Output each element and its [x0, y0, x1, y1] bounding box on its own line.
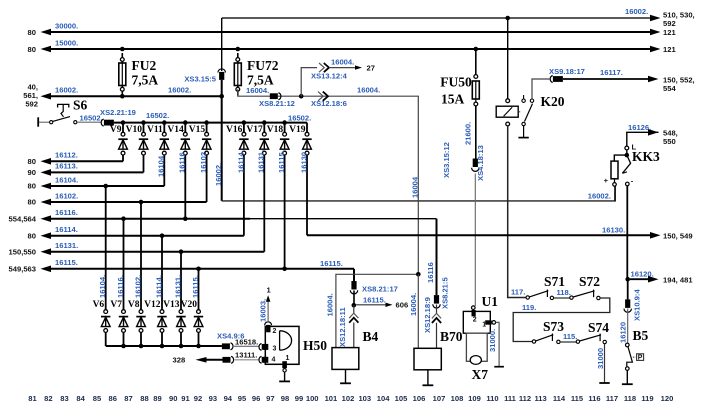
diode V9	[110, 123, 128, 162]
wire 16114	[28, 225, 244, 240]
wire 16004 branch to 27	[301, 58, 375, 97]
fuse FU2 7,5A	[119, 53, 159, 96]
svg-text:15000.: 15000.	[55, 38, 78, 47]
svg-text:FU72: FU72	[247, 58, 279, 73]
svg-text:102: 102	[342, 394, 355, 403]
svg-text:99: 99	[295, 394, 303, 403]
label 16102 (V15 wire)	[199, 152, 208, 173]
svg-text:KK3: KK3	[632, 149, 660, 164]
svg-text:FU2: FU2	[132, 58, 157, 73]
wire 16004 (to B4)	[325, 272, 420, 348]
svg-text:80: 80	[28, 231, 36, 240]
svg-text:118: 118	[624, 394, 636, 403]
svg-text:16116.: 16116.	[116, 275, 125, 298]
node 40,561,592	[23, 83, 38, 109]
diode V19	[289, 123, 312, 236]
svg-text:16004.: 16004.	[325, 293, 334, 316]
wire 16115 vertical / connector XS8.21:17	[338, 269, 398, 348]
svg-text:16004.: 16004.	[357, 86, 380, 95]
switch S73	[532, 319, 564, 344]
connector XS8.21:12	[259, 93, 295, 108]
svg-text:118.: 118.	[557, 288, 571, 297]
wire 16116 vertical / connector XS8.21:5	[423, 219, 450, 349]
svg-text:16502.: 16502.	[288, 114, 311, 123]
svg-text:117.: 117.	[511, 288, 525, 297]
svg-text:XS12.18:9: XS12.18:9	[423, 297, 432, 333]
svg-text:XS2.21:19: XS2.21:19	[100, 108, 136, 117]
svg-text:16112.: 16112.	[55, 151, 78, 160]
svg-text:30000.: 30000.	[55, 21, 78, 30]
svg-text:16115.: 16115.	[191, 275, 200, 298]
svg-text:16004.: 16004.	[246, 86, 269, 95]
node 150,552,554	[663, 76, 695, 94]
svg-text:88: 88	[140, 394, 148, 403]
svg-text:93: 93	[209, 394, 217, 403]
label 16130 (V19 wire)	[299, 152, 308, 173]
svg-text:XS12.18:11: XS12.18:11	[338, 307, 347, 347]
svg-text:150,550: 150,550	[9, 247, 36, 256]
svg-text:592: 592	[25, 100, 38, 109]
svg-text:U1: U1	[482, 294, 499, 309]
svg-text:V17: V17	[246, 125, 263, 135]
svg-text:119: 119	[641, 394, 653, 403]
wire 118	[554, 288, 571, 298]
wire 16120 vertical (KK3 to B5)	[619, 186, 642, 343]
svg-text:B4: B4	[363, 329, 379, 344]
diode V11	[147, 123, 169, 186]
svg-text:2: 2	[473, 317, 477, 324]
wire 16502 bus	[114, 111, 311, 125]
label 16114 (V16 wire)	[236, 150, 245, 173]
svg-text:85: 85	[93, 394, 102, 403]
svg-text:16130: 16130	[299, 152, 308, 173]
connector X7	[466, 333, 488, 382]
wire 16113	[28, 162, 144, 177]
svg-text:95: 95	[238, 394, 247, 403]
svg-text:V15: V15	[189, 125, 206, 135]
wire 16004 (to B70)	[417, 274, 419, 348]
label 16131 (V13 wire)	[173, 275, 182, 298]
diode V17	[246, 123, 269, 252]
connector XS2.21:19	[100, 108, 136, 126]
svg-text:V12: V12	[144, 300, 161, 310]
device B4	[332, 329, 379, 383]
svg-text:16104.: 16104.	[98, 275, 107, 298]
svg-text:XS8.21:5: XS8.21:5	[440, 277, 449, 309]
svg-text:16002.: 16002.	[168, 86, 191, 95]
svg-text:100: 100	[306, 394, 319, 403]
wire 16002 (top line to 510,530,592)	[222, 7, 661, 21]
svg-text:103: 103	[358, 394, 371, 403]
node 121 (30000)	[663, 28, 676, 37]
svg-text:80: 80	[28, 45, 36, 54]
wire 16002 (to KK3 heater)	[222, 186, 616, 201]
svg-text:110: 110	[486, 394, 498, 403]
svg-text:V10: V10	[126, 125, 143, 135]
svg-text:16102.: 16102.	[133, 275, 142, 298]
svg-text:104: 104	[377, 394, 390, 403]
diode V7	[110, 219, 128, 346]
svg-text:4: 4	[272, 357, 276, 364]
svg-text:XS9.18:17: XS9.18:17	[549, 67, 585, 76]
svg-text:120: 120	[661, 394, 674, 403]
svg-text:16518.: 16518.	[235, 337, 258, 346]
svg-text:16102.: 16102.	[55, 191, 78, 200]
wire 16126	[628, 123, 659, 136]
relay K20 coil	[496, 18, 565, 126]
switch S72	[570, 274, 600, 300]
label 16104 (V11 wire)	[157, 155, 166, 177]
svg-text:16116.: 16116.	[55, 208, 78, 217]
svg-text:16114.: 16114.	[55, 225, 78, 234]
svg-text:XS3.15:12: XS3.15:12	[442, 142, 451, 178]
svg-text:V11: V11	[147, 125, 163, 135]
wire 13111 / 328	[173, 351, 268, 365]
svg-text:115: 115	[571, 394, 584, 403]
svg-text:89: 89	[153, 394, 161, 403]
diode V18	[267, 123, 290, 269]
svg-text:549,563: 549,563	[9, 265, 36, 274]
svg-text:B5: B5	[633, 328, 649, 343]
diode V13	[163, 252, 186, 346]
fuse FU50 15A	[440, 49, 479, 107]
svg-text:16116: 16116	[178, 152, 187, 173]
wire 16004 (from FU72)	[238, 86, 420, 317]
svg-text:16114.: 16114.	[154, 275, 163, 298]
svg-text:94: 94	[224, 394, 233, 403]
svg-text:S74: S74	[588, 320, 609, 335]
svg-text:105: 105	[395, 394, 408, 403]
svg-text:90: 90	[169, 394, 177, 403]
svg-text:606: 606	[396, 301, 409, 310]
svg-text:S73: S73	[543, 319, 564, 334]
svg-text:X7: X7	[472, 367, 489, 382]
svg-text:109: 109	[468, 394, 481, 403]
svg-text:111: 111	[504, 394, 517, 403]
switch S74	[576, 320, 609, 344]
svg-text:XS3.15:5: XS3.15:5	[184, 75, 216, 84]
label 16115 (V20 wire)	[191, 275, 200, 298]
svg-text:2: 2	[273, 328, 277, 335]
svg-text:554: 554	[663, 84, 676, 93]
diode V10	[126, 123, 149, 173]
svg-text:194, 481: 194, 481	[663, 276, 693, 285]
wire 16115 to 606	[356, 295, 408, 309]
diode V14	[167, 123, 190, 219]
svg-text:+: +	[604, 176, 609, 185]
label 16104 (V6 wire)	[98, 275, 107, 298]
svg-text:16114.: 16114.	[236, 150, 245, 173]
wire 115	[560, 332, 577, 342]
switch B5 (pressure)	[622, 328, 649, 384]
svg-text:116: 116	[588, 394, 600, 403]
svg-text:21600.: 21600.	[463, 122, 472, 145]
device B70	[414, 329, 463, 385]
svg-text:16120.: 16120.	[631, 270, 654, 279]
svg-text:113: 113	[534, 394, 546, 403]
wire lower diode bus	[106, 344, 222, 349]
wire 31000 (S74 to ground)	[596, 344, 610, 383]
wire 16131	[9, 241, 265, 256]
svg-text:16002.: 16002.	[55, 86, 78, 95]
svg-text:121: 121	[663, 28, 676, 37]
bottom zone scale 81-120	[28, 394, 673, 403]
wire 16112	[28, 151, 123, 166]
svg-text:80: 80	[28, 157, 36, 166]
svg-text:V8: V8	[128, 300, 140, 310]
svg-text:16502.: 16502.	[146, 111, 169, 120]
svg-text:82: 82	[44, 394, 52, 403]
svg-text:16131.: 16131.	[55, 241, 78, 250]
diode V6	[93, 186, 111, 346]
svg-text:V16: V16	[226, 125, 243, 135]
svg-text:16102: 16102	[199, 152, 208, 173]
svg-text:87: 87	[124, 394, 132, 403]
connector XS12.18:6	[311, 92, 347, 108]
svg-text:80: 80	[28, 28, 36, 37]
svg-text:7,5A: 7,5A	[132, 73, 159, 88]
svg-text:16003.: 16003.	[259, 299, 268, 322]
svg-text:27: 27	[367, 64, 375, 73]
svg-text:V20: V20	[181, 300, 198, 310]
svg-text:V13: V13	[163, 300, 180, 310]
svg-text:V7: V7	[110, 300, 122, 310]
svg-text:107: 107	[433, 394, 446, 403]
label 16116 (V14 wire)	[178, 152, 187, 173]
svg-text:92: 92	[194, 394, 202, 403]
svg-text:117: 117	[606, 394, 618, 403]
svg-text:V9: V9	[110, 125, 122, 135]
label 16114 (V12 wire)	[154, 275, 163, 298]
svg-text:1: 1	[482, 322, 486, 329]
switch S6	[38, 98, 103, 127]
svg-text:96: 96	[252, 394, 260, 403]
svg-text:16104: 16104	[157, 155, 166, 177]
svg-text:V6: V6	[93, 300, 105, 310]
svg-text:S71: S71	[544, 274, 565, 289]
svg-text:15A: 15A	[441, 92, 465, 107]
svg-text:P: P	[638, 354, 643, 361]
svg-text:108: 108	[451, 394, 464, 403]
svg-text:90: 90	[28, 168, 36, 177]
svg-text:16117.: 16117.	[600, 68, 623, 77]
svg-text:106: 106	[413, 394, 426, 403]
node 121 (15000)	[663, 45, 676, 54]
wire 15000	[28, 38, 661, 54]
node 194,481	[663, 276, 693, 285]
svg-text:16116: 16116	[426, 262, 435, 283]
svg-text:150, 549: 150, 549	[663, 232, 693, 241]
svg-text:86: 86	[108, 394, 116, 403]
svg-text:16115.: 16115.	[320, 259, 343, 268]
svg-text:16115.: 16115.	[277, 150, 286, 173]
wire 30000	[28, 21, 661, 37]
svg-text:16126.: 16126.	[628, 123, 651, 132]
svg-text:31000: 31000	[596, 348, 605, 369]
diode V15	[189, 123, 212, 202]
svg-text:115.: 115.	[563, 332, 577, 341]
diode V16	[226, 123, 249, 236]
svg-text:16002.: 16002.	[625, 7, 648, 16]
svg-text:16115.: 16115.	[363, 295, 386, 304]
svg-text:119.: 119.	[522, 303, 536, 312]
switch S71	[526, 274, 565, 300]
label 16102 (V8 wire)	[133, 275, 142, 298]
wire 16130	[307, 226, 661, 239]
svg-text:H50: H50	[303, 338, 327, 353]
relay KK3	[604, 132, 660, 201]
svg-text:S72: S72	[579, 274, 600, 289]
svg-text:XS8.21:17: XS8.21:17	[362, 285, 398, 294]
svg-text:114: 114	[553, 394, 566, 403]
svg-text:16120: 16120	[619, 322, 628, 343]
svg-text:B70: B70	[440, 329, 463, 344]
svg-text:81: 81	[28, 394, 37, 403]
wire 16002 (row to FU2)	[41, 86, 225, 100]
label 16131 (V17 wire)	[257, 150, 266, 173]
svg-text:XS13.12:4: XS13.12:4	[311, 72, 348, 81]
svg-text:13111.: 13111.	[235, 351, 257, 360]
svg-text:91: 91	[181, 394, 190, 403]
svg-text:16004: 16004	[411, 176, 420, 198]
wire 16115	[9, 258, 354, 273]
svg-text:16004.: 16004.	[331, 58, 354, 67]
horn H50	[263, 322, 327, 382]
diode V20	[181, 269, 204, 346]
svg-text:XS10.9:4: XS10.9:4	[633, 289, 642, 321]
node 510,530,592	[663, 11, 695, 29]
svg-text:101: 101	[325, 394, 338, 403]
wire 16002 vertical / connector XS3.15:5	[184, 18, 225, 201]
wire 16104	[28, 175, 165, 190]
svg-text:592: 592	[663, 19, 676, 28]
wire 16003 (H50 pin2 up)	[259, 286, 272, 323]
relay K20 contact	[518, 79, 549, 138]
svg-text:3: 3	[273, 346, 277, 353]
device U1	[463, 294, 498, 333]
svg-text:XS4.18:13: XS4.18:13	[476, 145, 485, 181]
node 548,550	[663, 129, 678, 147]
svg-text:16002.: 16002.	[214, 163, 223, 186]
svg-text:550: 550	[663, 137, 676, 146]
diode V12	[144, 236, 167, 346]
svg-text:16002.: 16002.	[588, 192, 611, 201]
svg-text:83: 83	[60, 394, 68, 403]
diode V8	[128, 202, 146, 346]
svg-text:112: 112	[519, 394, 531, 403]
svg-text:97: 97	[266, 394, 274, 403]
svg-text:V14: V14	[167, 125, 184, 135]
svg-text:K20: K20	[541, 94, 565, 109]
wire 117 (K20 to S71)	[508, 126, 526, 298]
svg-text:FU50: FU50	[440, 75, 472, 90]
wire 16102	[28, 191, 207, 206]
label 16116 (V7 wire)	[116, 275, 125, 298]
label 16115 (V18 wire)	[277, 150, 286, 173]
wire 119 (S72 to S73)	[513, 298, 610, 342]
svg-text:80: 80	[28, 198, 36, 207]
svg-text:98: 98	[281, 394, 289, 403]
svg-text:1: 1	[286, 355, 290, 362]
svg-text:121: 121	[663, 45, 676, 54]
connector XS4.9:6	[217, 332, 267, 351]
svg-text:16131.: 16131.	[173, 275, 182, 298]
connector XS9.18:17 / wire 16117	[549, 67, 659, 83]
svg-text:XS12.18:6: XS12.18:6	[311, 99, 347, 108]
wire 31000 (U1 to ground)	[488, 322, 504, 366]
svg-text:16104.: 16104.	[55, 175, 78, 184]
svg-text:328: 328	[173, 356, 186, 365]
svg-text:V19: V19	[289, 125, 306, 135]
svg-text:16130.: 16130.	[602, 226, 625, 235]
svg-text:554,564: 554,564	[9, 214, 37, 223]
svg-text:S6: S6	[73, 98, 88, 113]
svg-text:16131.: 16131.	[257, 150, 266, 173]
wire 16116	[9, 208, 437, 223]
svg-text:31000.: 31000.	[488, 329, 497, 352]
svg-text:84: 84	[76, 394, 85, 403]
svg-text:V18: V18	[267, 125, 284, 135]
svg-text:XS8.21:12: XS8.21:12	[259, 99, 295, 108]
wire 16120 arrow	[630, 270, 659, 283]
svg-text:16115.: 16115.	[55, 258, 78, 267]
svg-text:80: 80	[28, 182, 36, 191]
svg-text:16004.: 16004.	[409, 293, 418, 316]
node 150,549	[663, 232, 693, 241]
wire 21600 / connectors XS3.15:12 XS4.18:13	[442, 106, 485, 306]
fuse FU72 7,5A	[234, 53, 278, 96]
svg-text:16113.: 16113.	[55, 162, 78, 171]
